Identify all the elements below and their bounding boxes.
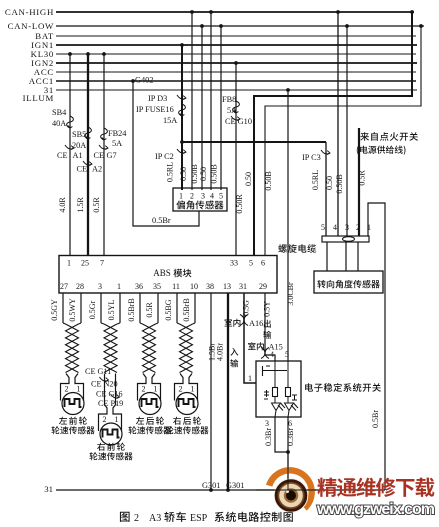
ESP switch label bbox=[305, 383, 313, 391]
wire 3.0CBr from 31 bus down to ESP switch pin5 bbox=[287, 90, 289, 361]
svg-text:CE: CE bbox=[94, 151, 105, 160]
twisted pair to 左后轮 bbox=[140, 323, 143, 324]
svg-text:25: 25 bbox=[81, 259, 89, 268]
switch legend mark right bbox=[292, 395, 297, 400]
junction on IGN1 fused wire bbox=[180, 140, 184, 144]
spiral cable label bbox=[278, 244, 287, 253]
svg-text:0.3Br: 0.3Br bbox=[264, 428, 273, 446]
svg-text:2: 2 bbox=[356, 223, 360, 232]
wires ABS to 左前轮 sensor bbox=[62, 293, 64, 323]
svg-text:IP FUSE16: IP FUSE16 bbox=[136, 105, 174, 114]
svg-text:CE N20: CE N20 bbox=[91, 380, 118, 389]
svg-text:G7: G7 bbox=[107, 151, 117, 160]
wire KL30 to fuse SB4 bbox=[69, 54, 71, 256]
svg-text:36: 36 bbox=[135, 282, 143, 291]
bus CAN-LOW wraps right side down into ABS pin6 bbox=[56, 25, 424, 27]
indicator lamp right bbox=[286, 388, 291, 397]
svg-text:31: 31 bbox=[239, 282, 247, 291]
svg-text:2: 2 bbox=[134, 513, 139, 524]
wire ABS pin38 ground 1.5Br bbox=[210, 293, 212, 490]
svg-text:38: 38 bbox=[206, 282, 214, 291]
watermark logo eye bbox=[274, 479, 308, 513]
svg-text:4: 4 bbox=[270, 350, 274, 359]
svg-text:0.5Br: 0.5Br bbox=[371, 410, 380, 428]
wheel speed sensor 右后轮 bbox=[175, 374, 184, 401]
svg-text:G301: G301 bbox=[202, 481, 220, 490]
input label bbox=[230, 348, 238, 356]
svg-text:5A: 5A bbox=[112, 139, 122, 148]
svg-text:0.50: 0.50 bbox=[325, 176, 334, 190]
svg-text:29: 29 bbox=[259, 282, 267, 291]
svg-text:1: 1 bbox=[117, 282, 121, 291]
svg-text:CE G10: CE G10 bbox=[225, 117, 252, 126]
indicator lamp left bbox=[273, 388, 278, 397]
svg-text:2: 2 bbox=[103, 415, 107, 424]
svg-text:4.0Br: 4.0Br bbox=[216, 343, 225, 361]
svg-text:3: 3 bbox=[265, 419, 269, 428]
wire switch pin6 to ground rail bbox=[287, 417, 289, 490]
annotation: from ignition switch (power supply line) bbox=[360, 132, 369, 141]
wheel speed sensor 左前轮 bbox=[61, 374, 70, 401]
connector break to interior A16 bbox=[240, 315, 248, 326]
svg-text:1: 1 bbox=[77, 385, 81, 394]
figure caption bbox=[120, 512, 130, 522]
watermark text jingtong weixiu xiazai bbox=[317, 478, 336, 497]
svg-text:35: 35 bbox=[153, 282, 161, 291]
svg-text:1: 1 bbox=[179, 192, 183, 201]
svg-text:CAN-LOW: CAN-LOW bbox=[8, 21, 54, 31]
wire CAN-LOW to yaw pin3 bbox=[201, 26, 203, 190]
svg-text:IP D3: IP D3 bbox=[148, 94, 167, 103]
twisted pair to 右前轮 bbox=[101, 323, 104, 324]
svg-text:27: 27 bbox=[60, 282, 68, 291]
svg-text:A2: A2 bbox=[92, 165, 102, 174]
svg-text:0.50B: 0.50B bbox=[210, 164, 219, 183]
svg-text:3: 3 bbox=[201, 192, 205, 201]
svg-text:CE: CE bbox=[77, 165, 88, 174]
svg-text:IP C3: IP C3 bbox=[302, 153, 321, 162]
svg-text:2: 2 bbox=[65, 385, 69, 394]
wire switch pin3 to ground merge bbox=[275, 417, 288, 452]
svg-text:0.5R: 0.5R bbox=[358, 170, 367, 186]
svg-text:4: 4 bbox=[333, 223, 337, 232]
svg-text:3: 3 bbox=[345, 223, 349, 232]
svg-text:2: 2 bbox=[179, 385, 183, 394]
wire 0.5R power from ignition switch to spiral pin2 (thick) bbox=[358, 128, 360, 236]
wire CAN-HIGH to yaw pin4 bbox=[210, 12, 212, 190]
svg-text:0.5GY: 0.5GY bbox=[50, 299, 59, 321]
ABS module box bbox=[59, 256, 277, 294]
svg-text:A3: A3 bbox=[149, 513, 161, 524]
svg-text:0.50B: 0.50B bbox=[190, 164, 199, 183]
svg-text:4: 4 bbox=[210, 192, 214, 201]
wires spiral cable to steering angle sensor bbox=[326, 242, 328, 271]
svg-text:CE: CE bbox=[57, 151, 68, 160]
svg-text:7: 7 bbox=[100, 259, 104, 268]
connector CE leads to right-front sensor bbox=[104, 374, 106, 405]
svg-text:CE P19: CE P19 bbox=[98, 399, 123, 408]
wire ABS pin13 ground 4.0Br (thick) bbox=[227, 293, 229, 490]
wheel speed sensor 左后轮 bbox=[138, 374, 147, 401]
svg-text:ABS: ABS bbox=[153, 268, 171, 278]
watermark logo swoosh bbox=[266, 467, 315, 510]
svg-text:0.5BrB: 0.5BrB bbox=[127, 298, 136, 321]
wire ABS pin31 0.5G to ESP switch pin1 bbox=[244, 293, 256, 383]
output label bbox=[264, 320, 271, 328]
wire IP C3 feed down to spiral cable pin5 bbox=[325, 142, 327, 236]
wire CAN-LOW to yaw pin5 bbox=[220, 26, 222, 190]
switch legend mark left bbox=[264, 390, 269, 399]
svg-text:FB24: FB24 bbox=[108, 129, 127, 138]
wire 0.5Br from G402 down, right, up into yaw sensor bottom bbox=[133, 81, 199, 226]
wires ABS to 右后轮 sensor bbox=[176, 293, 178, 323]
svg-text:0.5WY: 0.5WY bbox=[68, 298, 77, 322]
svg-text:0.50: 0.50 bbox=[244, 172, 253, 186]
connector break to interior A15 bbox=[261, 348, 269, 359]
svg-text:G301: G301 bbox=[226, 481, 244, 490]
svg-text:0.5Gr: 0.5Gr bbox=[88, 300, 97, 319]
bus CAN-HIGH wraps right side down into ABS pin5 (thick) bbox=[56, 11, 414, 13]
svg-text:5: 5 bbox=[285, 350, 289, 359]
wire CAN-HIGH to spiral pin4 bbox=[337, 12, 339, 236]
svg-text:5: 5 bbox=[321, 223, 325, 232]
svg-text:6: 6 bbox=[261, 259, 265, 268]
thick feed wire to IP C3 column bbox=[182, 141, 326, 143]
wire spiral pin1 arch to 0.5Br ground drop bbox=[368, 203, 385, 490]
svg-text:28: 28 bbox=[76, 282, 84, 291]
ESP switch box bbox=[256, 361, 301, 417]
svg-text:1: 1 bbox=[115, 415, 119, 424]
svg-text:5: 5 bbox=[249, 259, 253, 268]
svg-text:IP C2: IP C2 bbox=[155, 152, 174, 161]
yaw-rate sensor connector box (pins 1-5) bbox=[173, 188, 227, 211]
svg-text:A1: A1 bbox=[73, 151, 83, 160]
svg-text:1: 1 bbox=[248, 374, 252, 383]
svg-text:0.5Y: 0.5Y bbox=[263, 301, 272, 317]
svg-text:0.5R: 0.5R bbox=[92, 197, 101, 213]
wire KL30 to fuse FB24 bbox=[103, 54, 105, 256]
svg-text:1: 1 bbox=[191, 385, 195, 394]
steering angle sensor box bbox=[314, 271, 383, 293]
svg-text:1: 1 bbox=[154, 385, 158, 394]
wires ABS to 右前轮 sensor bbox=[100, 293, 102, 323]
svg-text:20A: 20A bbox=[72, 141, 86, 150]
svg-text:0.5BrB: 0.5BrB bbox=[182, 298, 191, 321]
svg-text:0.50: 0.50 bbox=[179, 167, 188, 181]
svg-text:ESP: ESP bbox=[190, 513, 208, 524]
svg-text:40A: 40A bbox=[52, 119, 66, 128]
wheel speed sensor 右前轮 bbox=[99, 404, 108, 431]
svg-text:0.5G: 0.5G bbox=[242, 300, 251, 316]
svg-text:0.5YL: 0.5YL bbox=[107, 300, 116, 321]
svg-text:1: 1 bbox=[67, 259, 71, 268]
node G402 on ACC1 bbox=[131, 79, 135, 83]
svg-text:13: 13 bbox=[223, 282, 231, 291]
svg-text:ILLUM: ILLUM bbox=[23, 93, 54, 103]
svg-text:4.0R: 4.0R bbox=[58, 197, 67, 213]
switch contact symbol bbox=[263, 366, 288, 376]
wire KL30 to fuse SB5 (thick) bbox=[87, 54, 89, 256]
svg-text:3: 3 bbox=[98, 282, 102, 291]
svg-text:0.5RL: 0.5RL bbox=[311, 170, 320, 190]
svg-text:G402: G402 bbox=[135, 76, 153, 85]
twisted pair to 右后轮 bbox=[177, 323, 180, 324]
svg-text:A16: A16 bbox=[249, 319, 263, 328]
svg-text:2: 2 bbox=[190, 192, 194, 201]
wire CAN-HIGH to yaw pin2 bbox=[191, 12, 193, 190]
svg-text:www.gzweix.com: www.gzweix.com bbox=[316, 501, 435, 518]
svg-text:33: 33 bbox=[230, 259, 238, 268]
wire CAN-LOW to spiral pin3 bbox=[346, 26, 348, 236]
svg-text:3.0CBr: 3.0CBr bbox=[286, 282, 295, 306]
svg-text:0.3Br: 0.3Br bbox=[286, 428, 295, 446]
svg-text:11: 11 bbox=[172, 282, 180, 291]
svg-text:0.5Br: 0.5Br bbox=[152, 216, 171, 225]
svg-text:1.5R: 1.5R bbox=[76, 197, 85, 213]
svg-text:CAN-HIGH: CAN-HIGH bbox=[5, 7, 54, 17]
svg-text:0.50B: 0.50B bbox=[335, 174, 344, 193]
svg-text:2: 2 bbox=[142, 385, 146, 394]
svg-text:1: 1 bbox=[367, 223, 371, 232]
svg-text:5: 5 bbox=[219, 192, 223, 201]
svg-text:SB4: SB4 bbox=[52, 108, 67, 117]
twisted pair to 左前轮 bbox=[63, 323, 66, 324]
svg-text:FB8: FB8 bbox=[222, 95, 236, 104]
svg-text:15A: 15A bbox=[163, 116, 177, 125]
svg-text:SB5: SB5 bbox=[72, 130, 86, 139]
svg-text:10: 10 bbox=[190, 282, 198, 291]
wire IGN1 down through fuse IP FUSE16 (thick) bbox=[181, 45, 183, 190]
svg-text:31: 31 bbox=[44, 484, 53, 494]
wire ABS pin29 0.5Y to ESP switch pin4 bbox=[265, 293, 275, 361]
wire IGN2 to ABS pin33 via fuse FB8 bbox=[235, 63, 237, 256]
yaw-rate sensor label bbox=[176, 200, 185, 209]
svg-text:0.50R: 0.50R bbox=[235, 194, 244, 214]
ground rail and wire visible through watermark bbox=[256, 489, 316, 491]
svg-text:0.5RL: 0.5RL bbox=[166, 162, 175, 182]
svg-text:0.50: 0.50 bbox=[199, 167, 208, 181]
svg-text:CE G16: CE G16 bbox=[96, 390, 123, 399]
wires ABS to 左后轮 sensor bbox=[139, 293, 141, 323]
svg-text:0.50B: 0.50B bbox=[264, 171, 273, 190]
svg-text:CE G11: CE G11 bbox=[85, 367, 111, 376]
svg-text:0.5R: 0.5R bbox=[145, 302, 154, 318]
svg-text:0.5BG: 0.5BG bbox=[164, 299, 173, 320]
